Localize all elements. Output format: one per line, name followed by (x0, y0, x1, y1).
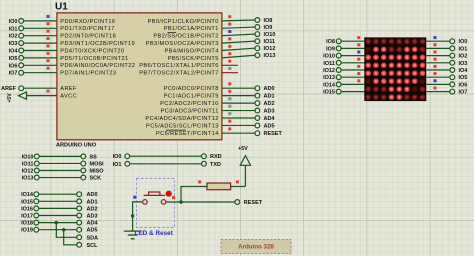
svg-text:IO13: IO13 (264, 53, 276, 59)
svg-text:IO4: IO4 (459, 68, 469, 74)
LED matrix dots (365, 39, 425, 100)
terminal IO1 (lower) (125, 161, 130, 166)
terminal SCL (77, 242, 82, 247)
ATmega328 U1 chip body (57, 13, 222, 140)
svg-text:PB6/TOSC1/XTAL1/PCINT6: PB6/TOSC1/XTAL1/PCINT6 (139, 63, 219, 69)
wire PB1 to IO9 (222, 27, 255, 28)
wire matrix to IO2 (426, 55, 450, 57)
pin number PB5 (228, 52, 231, 55)
terminal IO13 (255, 53, 260, 58)
svg-text:AD1: AD1 (264, 94, 275, 100)
svg-text:IO14: IO14 (21, 192, 34, 198)
wire IO14-AD0 (39, 193, 77, 195)
svg-text:IO12: IO12 (323, 68, 335, 74)
terminal IO3 (left) (19, 41, 24, 46)
wire PC0 to AD0 (222, 87, 255, 89)
wire matrix to IO7 (426, 91, 450, 93)
pin number matrix R3 (434, 51, 437, 54)
svg-text:IO10: IO10 (22, 154, 34, 160)
terminal AD3 (chip side) (255, 108, 260, 113)
svg-text:AD0: AD0 (87, 192, 98, 198)
svg-text:MOSI: MOSI (90, 161, 105, 167)
terminal IO18 (34, 220, 39, 225)
wire PB0 to IO8 (222, 19, 255, 22)
wire IO12 to matrix (341, 69, 364, 71)
wire matrix to IO0 (426, 40, 450, 42)
svg-text:IO9: IO9 (326, 46, 335, 52)
wire PC3 to AD3 (222, 110, 255, 112)
svg-text:IO6: IO6 (459, 82, 468, 88)
terminal AD2 (chip side) (255, 101, 260, 106)
svg-text:AD1: AD1 (87, 199, 98, 205)
svg-text:PB4/MISO/PCINT4: PB4/MISO/PCINT4 (165, 48, 219, 54)
pin number PC4 (gray) (228, 112, 231, 115)
terminal IO13 (34, 175, 39, 180)
wire PC5 to AD5 (222, 124, 255, 126)
pin number PC0 (228, 82, 231, 85)
svg-text:IO16: IO16 (21, 206, 33, 212)
LED matrix 8x8 body (364, 37, 426, 101)
pin number button.1 (blue) (133, 196, 136, 199)
terminal RESET (button side) (235, 200, 240, 205)
svg-text:AD5: AD5 (87, 228, 98, 234)
wire IO1-TXD (130, 163, 202, 165)
svg-text:RXD: RXD (210, 154, 222, 160)
terminal IO13 (matrix side) (336, 75, 341, 80)
pin number matrix L4 (357, 58, 360, 61)
wire IO11-MOSI (39, 162, 81, 164)
wire IO0 to U1 (24, 20, 57, 22)
terminal IO11 (255, 39, 260, 44)
wire button to RESET terminal (166, 201, 235, 203)
svg-text:IO11: IO11 (22, 161, 34, 167)
svg-text:PD4/T0/XCK/PCINT20: PD4/T0/XCK/PCINT20 (60, 48, 124, 54)
svg-text:LED & Reset: LED & Reset (135, 230, 174, 237)
wire PC2 to AD2 (222, 102, 255, 104)
svg-text:PB7/TOSC2/XTAL2/PCINT7: PB7/TOSC2/XTAL2/PCINT7 (139, 71, 219, 77)
pin number PB2 (blue) (228, 30, 231, 33)
svg-text:IO12: IO12 (264, 46, 276, 52)
svg-text:PB0/ICP1/CLKO/PCINT0: PB0/ICP1/CLKO/PCINT0 (148, 19, 219, 25)
svg-text:PD6/AIN0/OC0A/PCINT22: PD6/AIN0/OC0A/PCINT22 (60, 63, 135, 69)
pin number PB0 (228, 15, 231, 18)
overline SS (PB2) (168, 32, 177, 34)
pin number PB7 (gray) (228, 67, 231, 70)
junction on AD4 wire (55, 221, 58, 224)
wire matrix to IO3 (426, 62, 450, 64)
terminal IO1 (matrix side) (450, 46, 455, 51)
terminal RXD (202, 154, 207, 159)
pin number matrix L6 (357, 72, 360, 75)
wire IO14 to matrix (341, 83, 364, 85)
svg-text:PC2/ADC2/PCINT10: PC2/ADC2/PCINT10 (160, 101, 219, 107)
svg-text:PB5/SCK/PCINT5: PB5/SCK/PCINT5 (168, 56, 219, 62)
terminal IO2 (matrix side) (450, 53, 455, 58)
wire button to ground (133, 202, 143, 231)
svg-text:IO4: IO4 (9, 48, 19, 54)
svg-text:IO1: IO1 (9, 26, 18, 32)
wire IO17-AD3 (39, 215, 77, 217)
svg-text:IO8: IO8 (264, 18, 273, 24)
svg-text:PC0/ADC0/PCINT8: PC0/ADC0/PCINT8 (164, 86, 219, 92)
terminal MOSI (81, 161, 86, 166)
wire IO2 to U1 (24, 35, 57, 37)
pin number R1.1 (198, 180, 201, 183)
svg-text:PC4/ADC4/SDA/PCINT12: PC4/ADC4/SDA/PCINT12 (145, 116, 218, 122)
svg-text:PD0/RXD/PCINT16: PD0/RXD/PCINT16 (60, 19, 115, 25)
svg-text:IO2: IO2 (459, 54, 468, 60)
terminal IO7 (left) (19, 70, 24, 75)
pin number matrix R8 (434, 87, 437, 90)
svg-text:IO1: IO1 (113, 162, 122, 168)
svg-text:PC6/RESET/PCINT14: PC6/RESET/PCINT14 (156, 131, 219, 137)
terminal IO19 (34, 227, 39, 232)
wire AREF (24, 87, 57, 89)
wire IO8 to matrix (341, 40, 364, 42)
pin number PD2 (47, 30, 50, 33)
svg-text:AD0: AD0 (264, 86, 275, 92)
terminal AD1 (chip side) (255, 93, 260, 98)
terminal IO15 (matrix side) (336, 89, 341, 94)
svg-text:SS: SS (90, 154, 98, 160)
power +5V (reset pull-up) (244, 165, 246, 187)
terminal IO0 (left) (19, 19, 24, 24)
svg-text:IO11: IO11 (264, 39, 276, 45)
pin number PC3 (gray) (228, 105, 231, 108)
terminal IO9 (matrix side) (336, 46, 341, 51)
terminal IO8 (matrix side) (336, 39, 341, 44)
terminal IO11 (34, 161, 39, 166)
svg-text:SCL: SCL (87, 243, 99, 249)
pin number PB6 (228, 60, 231, 63)
svg-text:IO10: IO10 (323, 54, 335, 60)
pin number PD3 (47, 37, 50, 40)
svg-text:AD2: AD2 (264, 101, 275, 107)
terminal AD4 (lower) (77, 220, 82, 225)
terminal RESET (chip side) (255, 131, 260, 136)
terminal IO10 (matrix side) (336, 53, 341, 58)
svg-text:MISO: MISO (90, 168, 105, 174)
terminal AREF (19, 86, 24, 91)
wire IO1 to U1 (24, 27, 57, 29)
terminal IO3 (matrix side) (450, 60, 455, 65)
terminal IO5 (left) (19, 56, 24, 61)
wire matrix to IO4 (426, 69, 450, 71)
wire PB3 to IO11 (222, 41, 255, 43)
wire IO12-MISO (39, 170, 81, 172)
pin number PB1 (228, 23, 231, 26)
svg-text:IO2: IO2 (9, 34, 18, 40)
terminal IO2 (left) (19, 33, 24, 38)
terminal IO4 (matrix side) (450, 68, 455, 73)
pin number PC1 (228, 90, 231, 93)
svg-text:PC3/ADC3/PCINT11: PC3/ADC3/PCINT11 (161, 108, 219, 114)
button actuator (red dot) (166, 191, 172, 197)
wire IO13-SCK (39, 177, 81, 179)
junction on ground wire (131, 214, 134, 217)
annotation box Arduino 328 (221, 240, 291, 254)
pin number matrix R2 (434, 43, 437, 46)
pin number PC6 (228, 127, 231, 130)
svg-text:IO3: IO3 (459, 61, 468, 67)
wire +5V to R1 (231, 186, 246, 188)
pin number PC5 (228, 120, 231, 123)
terminal SCK (81, 175, 86, 180)
svg-text:RESET: RESET (244, 200, 263, 206)
svg-text:IO11: IO11 (323, 61, 335, 67)
terminal IO12 (matrix side) (336, 68, 341, 73)
wire PC1 to AD1 (222, 95, 255, 97)
terminal AD0 (lower) (77, 192, 82, 197)
wire IO15-AD1 (39, 200, 77, 202)
wire IO4 to U1 (24, 50, 57, 52)
junction reset rail (179, 200, 182, 203)
svg-text:IO0: IO0 (113, 154, 122, 160)
wire PC6 to RESET (222, 132, 255, 134)
terminal IO9 (255, 25, 260, 30)
pin number matrix R7 (434, 79, 437, 82)
svg-text:AD4: AD4 (264, 116, 276, 122)
power +5V (AVCC) arrow (27, 95, 57, 97)
svg-text:IO6: IO6 (9, 63, 18, 69)
pin number PD0 (blue) (47, 15, 50, 18)
svg-text:PD2/INT0/PCINT18: PD2/INT0/PCINT18 (60, 34, 116, 40)
terminal IO15 (34, 199, 39, 204)
terminal AD0 (chip side) (255, 86, 260, 91)
overline RESET (PC6) (166, 129, 186, 131)
svg-text:ARDUINO UNO: ARDUINO UNO (56, 143, 97, 149)
wire R1 to reset rail (181, 187, 207, 203)
svg-text:IO13: IO13 (323, 75, 335, 81)
svg-text:IO8: IO8 (326, 39, 335, 45)
pin number PB3 (228, 37, 231, 40)
ground (124, 231, 142, 239)
svg-text:IO12: IO12 (22, 168, 34, 174)
pin number R1.2 (236, 180, 239, 183)
svg-text:PC1/ADC1/PCINT9: PC1/ADC1/PCINT9 (164, 94, 219, 100)
wire matrix to IO1 (426, 47, 450, 49)
wire IO15 to matrix (341, 91, 364, 93)
svg-text:IO15: IO15 (323, 90, 335, 96)
svg-text:PD1/TXD/PCINT17: PD1/TXD/PCINT17 (60, 26, 114, 32)
wire matrix to IO6 (426, 83, 450, 85)
wire IO7 to U1 (24, 72, 57, 74)
wire IO9 to matrix (341, 47, 364, 49)
svg-text:AREF: AREF (60, 86, 77, 92)
pin number matrix R5 (434, 65, 437, 68)
terminal AD3 (lower) (77, 213, 82, 218)
svg-text:IO19: IO19 (21, 228, 33, 234)
junction on AD5 wire (62, 228, 65, 231)
pin number matrix L2 (357, 43, 360, 46)
svg-text:IO15: IO15 (21, 199, 33, 205)
terminal IO8 (255, 18, 260, 23)
terminal IO10 (34, 154, 39, 159)
terminal IO0 (lower) (125, 154, 130, 159)
svg-text:IO5: IO5 (459, 75, 468, 81)
pin number matrix R1 (434, 36, 437, 39)
wire PB5 to IO13 (222, 55, 255, 58)
pin number button.2 (172, 196, 175, 199)
svg-text:IO17: IO17 (21, 213, 33, 219)
svg-text:IO0: IO0 (459, 39, 468, 45)
terminal IO6 (left) (19, 63, 24, 68)
svg-text:AD4: AD4 (87, 221, 99, 227)
wire PC4 to AD4 (222, 117, 255, 119)
wire IO19-AD5 (39, 229, 77, 231)
wire IO13 to matrix (341, 76, 364, 78)
svg-text:+5V: +5V (238, 146, 248, 152)
terminal IO11 (matrix side) (336, 60, 341, 65)
svg-text:PB1/OC1A/PCINT1: PB1/OC1A/PCINT1 (164, 26, 219, 32)
svg-text:PD3/INT1/OC2B/PCINT19: PD3/INT1/OC2B/PCINT19 (60, 41, 135, 47)
wire IO5 to U1 (24, 57, 57, 59)
svg-text:PB3/MOSI/OC2A/PCINT3: PB3/MOSI/OC2A/PCINT3 (146, 41, 219, 47)
terminal AD1 (lower) (77, 199, 82, 204)
pin number PD1 (47, 22, 50, 25)
wire matrix to IO5 (426, 76, 450, 78)
terminal IO0 (matrix side) (450, 39, 455, 44)
svg-text:PD5/T1/OC0B/PCINT21: PD5/T1/OC0B/PCINT21 (60, 56, 128, 62)
terminal IO5 (matrix side) (450, 75, 455, 80)
pin number matrix L7 (357, 79, 360, 82)
svg-text:PD7/AIN1/PCINT23: PD7/AIN1/PCINT23 (60, 71, 116, 77)
svg-text:IO3: IO3 (9, 41, 18, 47)
svg-text:AD5: AD5 (264, 123, 275, 129)
terminal IO12 (255, 46, 260, 51)
terminal IO17 (34, 213, 39, 218)
terminal SS (81, 154, 86, 159)
svg-text:TXD: TXD (210, 162, 221, 168)
pin number PB4 (228, 45, 231, 48)
wire IO6 to U1 (24, 64, 57, 66)
svg-text:IO1: IO1 (459, 46, 468, 52)
wire branch AD5 to SCL (64, 230, 77, 245)
terminal TXD (202, 161, 207, 166)
terminal IO10 (255, 32, 260, 37)
svg-text:AD2: AD2 (87, 206, 98, 212)
selection box (tagged area) (137, 178, 175, 227)
svg-text:SCK: SCK (90, 176, 102, 182)
terminal AD5 (chip side) (255, 123, 260, 128)
svg-text:AD3: AD3 (264, 109, 275, 115)
terminal IO7 (matrix side) (450, 89, 455, 94)
svg-text:PC5/ADC5/SCL/PCINT13: PC5/ADC5/SCL/PCINT13 (146, 123, 219, 129)
svg-text:IO18: IO18 (21, 221, 33, 227)
pin number matrix R6 (434, 72, 437, 75)
svg-text:RESET: RESET (264, 131, 283, 137)
pin number matrix R4 (434, 58, 437, 61)
resistor R1 (207, 183, 231, 190)
pin stub PB6 (unconnected) (222, 64, 238, 66)
svg-text:PB2/SS/OC1B/PCINT2: PB2/SS/OC1B/PCINT2 (153, 34, 218, 40)
terminal IO16 (34, 206, 39, 211)
wire IO3 to U1 (24, 42, 57, 44)
pin number matrix L5 (357, 65, 360, 68)
svg-text:Arduino 328: Arduino 328 (238, 244, 274, 251)
svg-text:IO0: IO0 (9, 19, 18, 25)
terminal IO14 (34, 192, 39, 197)
pin number PD5 (47, 52, 50, 55)
wire PB2 to IO10 (222, 34, 255, 36)
terminal IO4 (left) (19, 48, 24, 53)
pin number PC2 (gray) (228, 97, 231, 100)
svg-text:IO9: IO9 (264, 25, 273, 31)
pin number matrix L1 (357, 36, 360, 39)
svg-text:IO5: IO5 (9, 56, 18, 62)
terminal AD2 (lower) (77, 206, 82, 211)
terminal SDA (77, 235, 82, 240)
pin number matrix L3 (357, 51, 360, 54)
svg-text:IO7: IO7 (459, 90, 468, 96)
wire IO0-RXD (130, 155, 202, 157)
push-button (reset) (143, 192, 166, 204)
terminal IO6 (matrix side) (450, 82, 455, 87)
svg-text:AREF: AREF (1, 86, 17, 92)
svg-text:SDA: SDA (87, 235, 99, 241)
wire IO16-AD2 (39, 207, 77, 209)
wire IO18-AD4 (39, 222, 77, 224)
pin number AVCC (47, 90, 50, 93)
wire IO10 to matrix (341, 55, 364, 57)
wire branch AD4 to SDA (56, 223, 76, 238)
wire IO10-SS (39, 155, 81, 157)
pin stub PB7 (unconnected) (222, 72, 238, 74)
svg-text:U1: U1 (55, 1, 68, 12)
wire PB4 to IO12 (222, 48, 255, 50)
pin number PD4 (47, 45, 50, 48)
svg-text:AVCC: AVCC (60, 94, 77, 100)
terminal AD4 (chip side) (255, 116, 260, 121)
terminal AD5 (lower) (77, 227, 82, 232)
svg-text:IO7: IO7 (9, 71, 18, 77)
terminal IO1 (left) (19, 26, 24, 31)
terminal MISO (81, 168, 86, 173)
svg-text:+5V: +5V (7, 93, 13, 103)
svg-text:AD3: AD3 (87, 213, 98, 219)
pin number PD6 (47, 59, 50, 62)
svg-text:IO10: IO10 (264, 32, 276, 38)
wire IO11 to matrix (341, 62, 364, 64)
pin number PD7 (47, 67, 50, 70)
terminal IO14 (matrix side) (336, 82, 341, 87)
svg-text:IO13: IO13 (22, 176, 34, 182)
svg-text:IO14: IO14 (323, 82, 336, 88)
terminal IO12 (34, 168, 39, 173)
